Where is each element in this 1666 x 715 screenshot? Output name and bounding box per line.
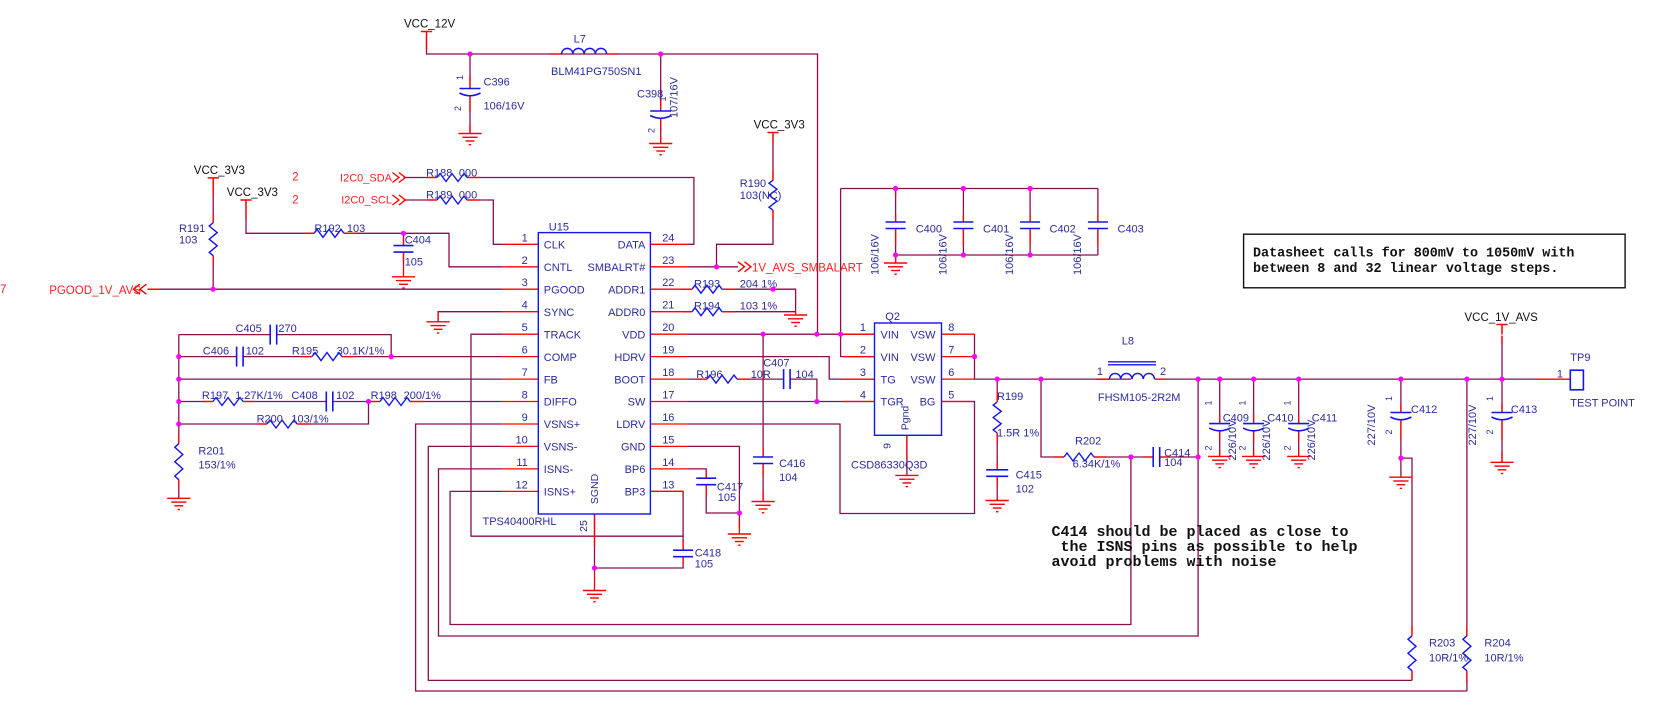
svg-text:C407: C407 (763, 358, 789, 370)
svg-text:102: 102 (246, 345, 264, 357)
svg-text:104: 104 (1164, 457, 1182, 469)
svg-text:DATA: DATA (618, 240, 646, 252)
svg-text:1: 1 (1097, 366, 1103, 378)
svg-text:153/1%: 153/1% (198, 460, 236, 472)
svg-text:1: 1 (1557, 369, 1563, 381)
svg-text:HDRV: HDRV (614, 352, 646, 364)
svg-text:R197: R197 (202, 390, 228, 402)
svg-text:ADDR0: ADDR0 (608, 307, 645, 319)
svg-text:25: 25 (578, 520, 590, 532)
svg-text:Pgnd: Pgnd (900, 406, 912, 431)
svg-text:24: 24 (662, 232, 674, 244)
svg-text:103/1%: 103/1% (291, 414, 329, 426)
svg-text:22: 22 (662, 277, 674, 289)
svg-text:BOOT: BOOT (614, 374, 645, 386)
svg-text:C403: C403 (1118, 224, 1144, 236)
svg-text:2: 2 (1384, 429, 1394, 434)
svg-text:L7: L7 (574, 34, 586, 46)
svg-text:10R/1%: 10R/1% (1484, 653, 1523, 665)
svg-text:VCC_3V3: VCC_3V3 (194, 165, 245, 177)
svg-text:R195: R195 (292, 345, 318, 357)
svg-text:4: 4 (860, 390, 866, 402)
svg-text:GND: GND (621, 442, 646, 454)
svg-text:2: 2 (1204, 445, 1214, 450)
svg-text:14: 14 (662, 457, 674, 469)
svg-text:COMP: COMP (544, 352, 577, 364)
svg-text:106/16V: 106/16V (937, 233, 949, 275)
svg-text:102: 102 (1016, 484, 1034, 496)
svg-text:R192: R192 (314, 223, 340, 235)
svg-text:C400: C400 (916, 224, 942, 236)
svg-text:9: 9 (882, 443, 894, 449)
svg-text:106/16V: 106/16V (1072, 233, 1084, 275)
svg-text:1: 1 (658, 96, 668, 101)
svg-text:VCC_3V3: VCC_3V3 (227, 187, 278, 199)
svg-text:2: 2 (860, 345, 866, 357)
svg-text:L8: L8 (1122, 336, 1134, 348)
svg-text:R198: R198 (371, 390, 397, 402)
svg-text:105: 105 (695, 558, 713, 570)
svg-text:8: 8 (522, 390, 528, 402)
svg-text:R199: R199 (997, 391, 1023, 403)
svg-text:10: 10 (516, 434, 528, 446)
svg-text:R200: R200 (257, 414, 283, 426)
svg-text:BP6: BP6 (625, 464, 646, 476)
svg-text:1: 1 (1238, 400, 1248, 405)
svg-text:7: 7 (948, 345, 954, 357)
svg-text:200/1%: 200/1% (404, 390, 442, 402)
svg-text:SMBALRT#: SMBALRT# (588, 262, 647, 274)
svg-text:R191: R191 (179, 223, 205, 235)
svg-text:DIFFO: DIFFO (544, 397, 577, 409)
svg-text:1: 1 (455, 75, 465, 80)
svg-text:227/10V: 227/10V (1467, 404, 1479, 446)
svg-text:6: 6 (948, 367, 954, 379)
svg-text:R190: R190 (740, 178, 766, 190)
svg-text:2: 2 (292, 195, 298, 207)
svg-text:C415: C415 (1016, 470, 1042, 482)
svg-text:ISNS+: ISNS+ (544, 487, 576, 499)
svg-text:R204: R204 (1484, 638, 1510, 650)
svg-text:I2C0_SCL: I2C0_SCL (341, 195, 392, 207)
svg-text:2: 2 (1160, 366, 1166, 378)
svg-text:2: 2 (647, 128, 657, 133)
svg-text:C396: C396 (484, 77, 510, 89)
svg-text:2: 2 (1238, 445, 1248, 450)
svg-text:9: 9 (522, 412, 528, 424)
svg-text:15: 15 (662, 434, 674, 446)
svg-text:270: 270 (278, 323, 296, 335)
svg-text:1V_AVS_SMBALART: 1V_AVS_SMBALART (752, 263, 863, 275)
svg-text:13: 13 (662, 479, 674, 491)
svg-text:LDRV: LDRV (616, 419, 646, 431)
svg-text:6: 6 (522, 345, 528, 357)
svg-text:2: 2 (1283, 445, 1293, 450)
svg-text:Datasheet calls for 800mV to 1: Datasheet calls for 800mV to 1050mV with (1253, 246, 1574, 261)
svg-text:U15: U15 (549, 221, 569, 233)
svg-text:C412: C412 (1411, 404, 1437, 416)
svg-text:VIN: VIN (881, 352, 899, 364)
svg-text:avoid problems with noise: avoid problems with noise (1052, 554, 1277, 571)
svg-text:VSW: VSW (910, 374, 936, 386)
svg-text:106/16V: 106/16V (1004, 233, 1016, 275)
svg-text:226/10V: 226/10V (1261, 419, 1273, 461)
svg-text:2: 2 (292, 172, 298, 184)
svg-text:21: 21 (662, 300, 674, 312)
svg-text:C408: C408 (291, 390, 317, 402)
svg-text:R203: R203 (1429, 638, 1455, 650)
svg-text:2: 2 (1485, 429, 1495, 434)
svg-text:1: 1 (1204, 400, 1214, 405)
svg-text:1: 1 (1485, 396, 1495, 401)
svg-text:5: 5 (948, 390, 954, 402)
svg-text:2: 2 (453, 106, 463, 111)
svg-text:R196: R196 (696, 369, 722, 381)
svg-text:1: 1 (1283, 400, 1293, 405)
svg-text:PGOOD_1V_AVS: PGOOD_1V_AVS (49, 285, 141, 297)
svg-text:Q2: Q2 (885, 311, 900, 323)
svg-text:6.34K/1%: 6.34K/1% (1073, 459, 1121, 471)
svg-text:TEST POINT: TEST POINT (1570, 398, 1635, 410)
svg-text:SW: SW (628, 397, 646, 409)
svg-text:103: 103 (179, 234, 197, 246)
svg-text:CLK: CLK (544, 240, 566, 252)
svg-text:226/10V: 226/10V (1306, 419, 1318, 461)
svg-text:TG: TG (881, 374, 896, 386)
svg-text:103: 103 (347, 223, 365, 235)
svg-text:TGR: TGR (881, 397, 904, 409)
svg-text:FB: FB (544, 374, 558, 386)
svg-text:7: 7 (522, 367, 528, 379)
svg-text:VSNS-: VSNS- (544, 442, 578, 454)
svg-text:TP9: TP9 (1570, 352, 1590, 364)
svg-text:VSW: VSW (910, 329, 936, 341)
svg-text:BP3: BP3 (625, 487, 646, 499)
svg-text:30.1K/1%: 30.1K/1% (337, 345, 385, 357)
svg-text:20: 20 (662, 322, 674, 334)
svg-text:102: 102 (336, 390, 354, 402)
svg-text:SYNC: SYNC (544, 307, 575, 319)
svg-text:TRACK: TRACK (544, 329, 582, 341)
svg-text:5: 5 (522, 322, 528, 334)
svg-text:104: 104 (795, 369, 813, 381)
svg-text:23: 23 (662, 255, 674, 267)
svg-text:C402: C402 (1050, 224, 1076, 236)
svg-text:105: 105 (718, 492, 736, 504)
svg-text:ADDR1: ADDR1 (608, 284, 645, 296)
svg-text:VCC_3V3: VCC_3V3 (754, 120, 805, 132)
svg-text:between 8 and 32 linear voltag: between 8 and 32 linear voltage steps. (1253, 262, 1558, 277)
svg-text:103(NC): 103(NC) (740, 190, 782, 202)
svg-text:227/10V: 227/10V (1366, 404, 1378, 446)
svg-text:1: 1 (1384, 396, 1394, 401)
svg-text:19: 19 (662, 345, 674, 357)
svg-text:8: 8 (948, 322, 954, 334)
svg-text:1.5R 1%: 1.5R 1% (997, 428, 1039, 440)
svg-text:10R/1%: 10R/1% (1429, 653, 1468, 665)
svg-text:C401: C401 (983, 224, 1009, 236)
svg-text:VDD: VDD (622, 329, 645, 341)
svg-text:C406: C406 (203, 345, 229, 357)
svg-text:4: 4 (522, 300, 528, 312)
svg-text:204 1%: 204 1% (740, 278, 778, 290)
svg-text:ISNS-: ISNS- (544, 464, 574, 476)
svg-text:R189: R189 (426, 190, 452, 202)
svg-text:10R: 10R (751, 369, 771, 381)
svg-text:R193: R193 (694, 278, 720, 290)
svg-text:000: 000 (459, 168, 477, 180)
svg-text:CSD86330Q3D: CSD86330Q3D (851, 460, 927, 472)
svg-text:000: 000 (459, 190, 477, 202)
svg-text:105: 105 (405, 257, 423, 269)
svg-text:BLM41PG750SN1: BLM41PG750SN1 (551, 66, 642, 78)
svg-text:104: 104 (779, 472, 797, 484)
svg-text:18: 18 (662, 367, 674, 379)
svg-text:CNTL: CNTL (544, 262, 573, 274)
svg-text:2: 2 (522, 255, 528, 267)
svg-text:11: 11 (516, 457, 527, 469)
svg-text:BG: BG (920, 397, 936, 409)
svg-text:VSW: VSW (910, 352, 936, 364)
svg-text:R202: R202 (1075, 436, 1101, 448)
svg-text:7: 7 (0, 284, 6, 296)
svg-text:FHSM105-2R2M: FHSM105-2R2M (1098, 392, 1181, 404)
svg-text:R194: R194 (694, 301, 720, 313)
svg-text:1: 1 (522, 232, 528, 244)
svg-text:103 1%: 103 1% (740, 301, 778, 313)
svg-text:106/16V: 106/16V (870, 233, 882, 275)
svg-text:VSNS+: VSNS+ (544, 419, 580, 431)
svg-text:106/16V: 106/16V (484, 101, 526, 113)
svg-text:VIN: VIN (881, 329, 899, 341)
svg-text:C404: C404 (405, 235, 431, 247)
svg-text:1.27K/1%: 1.27K/1% (235, 390, 283, 402)
svg-text:SGND: SGND (589, 473, 601, 504)
svg-text:12: 12 (516, 479, 528, 491)
svg-text:17: 17 (662, 390, 674, 402)
svg-text:1: 1 (860, 322, 866, 334)
svg-text:R188: R188 (426, 168, 452, 180)
svg-text:VCC_1V_AVS: VCC_1V_AVS (1465, 312, 1539, 324)
svg-text:C416: C416 (779, 458, 805, 470)
svg-text:PGOOD: PGOOD (544, 284, 585, 296)
svg-text:TPS40400RHL: TPS40400RHL (483, 516, 557, 528)
svg-text:226/10V: 226/10V (1227, 419, 1239, 461)
svg-text:VCC_12V: VCC_12V (404, 19, 455, 31)
svg-text:I2C0_SDA: I2C0_SDA (340, 172, 393, 184)
svg-text:16: 16 (662, 412, 674, 424)
svg-text:C405: C405 (236, 323, 262, 335)
svg-text:3: 3 (860, 367, 866, 379)
svg-text:107/16V: 107/16V (669, 76, 681, 118)
svg-text:R201: R201 (198, 446, 224, 458)
svg-text:3: 3 (522, 277, 528, 289)
svg-text:C413: C413 (1511, 404, 1537, 416)
